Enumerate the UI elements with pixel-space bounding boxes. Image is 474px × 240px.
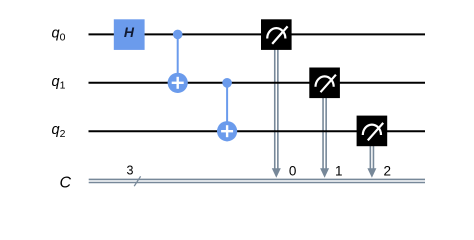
svg-text:q: q [52, 122, 60, 138]
measure gate M1 on q1 [309, 68, 340, 99]
svg-text:q: q [52, 74, 60, 90]
CNOT1 control dot on q0 [173, 30, 183, 40]
CNOT2 vertical link q1-q2 [226, 83, 228, 142]
qubit label q0 [52, 25, 66, 43]
bus width slash [134, 176, 140, 186]
svg-text:q: q [52, 25, 60, 41]
svg-text:1: 1 [60, 80, 66, 92]
svg-text:0: 0 [60, 31, 66, 43]
measure cbit line M0 (double vertical) [272, 48, 281, 178]
classical register wire C (double horizontal) [89, 179, 425, 182]
CNOT1 vertical link q0-q1 [177, 34, 179, 93]
CNOT2 target on q2 [217, 121, 237, 141]
svg-text:2: 2 [383, 163, 391, 178]
H gate on q0 [114, 19, 145, 50]
qubit wire q1 [89, 82, 426, 84]
measure gate M0 on q0 [261, 19, 292, 50]
qubit label q1 [52, 74, 66, 92]
CNOT1 target on q1 [168, 73, 188, 93]
svg-text:C: C [60, 175, 72, 192]
qubit wire q0 [89, 33, 426, 35]
svg-text:1: 1 [335, 163, 343, 178]
CNOT2 control dot on q1 [222, 78, 232, 88]
qubit label q2 [52, 122, 66, 140]
svg-text:H: H [124, 24, 135, 40]
qubit wire q2 [89, 130, 426, 132]
measure cbit line M1 (double vertical) [320, 96, 329, 178]
measure cbit line M2 (double vertical) [367, 144, 376, 178]
svg-text:2: 2 [60, 128, 66, 140]
measure gate M2 on q2 [357, 116, 388, 147]
svg-text:3: 3 [127, 164, 134, 178]
svg-text:0: 0 [289, 163, 297, 178]
